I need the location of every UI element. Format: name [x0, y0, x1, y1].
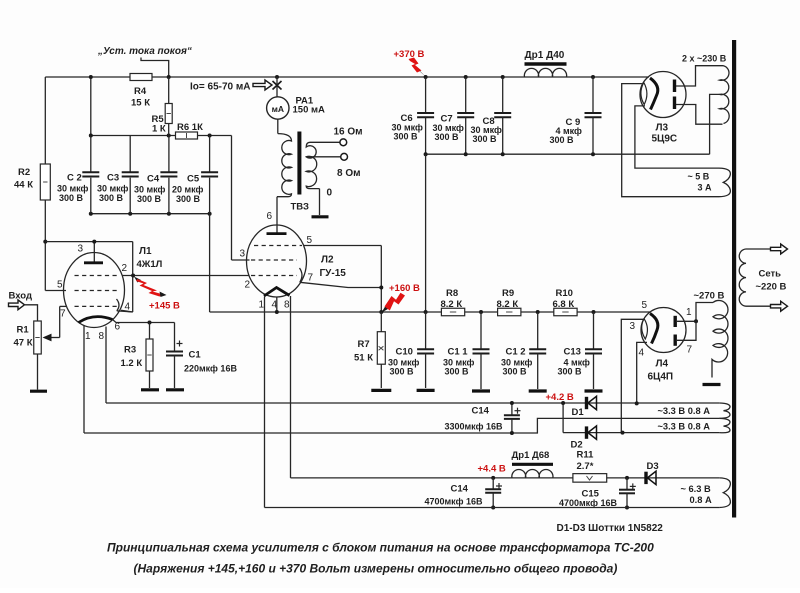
svg-text:+160 В: +160 В — [389, 283, 420, 294]
svg-text:300 В: 300 В — [435, 132, 460, 142]
label L1 pin2 — [122, 263, 128, 274]
tube L1 envelope — [64, 253, 125, 328]
wire C5 down to +160 rail — [209, 214, 211, 312]
ground C10 — [417, 389, 435, 392]
resistor R4 — [130, 74, 152, 81]
svg-text:„Уст. тока покоя“: „Уст. тока покоя“ — [97, 46, 192, 57]
svg-text:6: 6 — [267, 211, 273, 222]
svg-text:С14: С14 — [472, 406, 490, 417]
capacitor C1 — [166, 323, 183, 389]
label C9 — [550, 117, 583, 145]
capacitor C6 — [417, 77, 434, 154]
resistor R1 — [34, 321, 42, 354]
capacitor C8 — [494, 77, 511, 154]
svg-text:1.2 К: 1.2 К — [121, 358, 143, 369]
label L1 — [137, 246, 163, 270]
label L4 pin5 — [642, 300, 648, 311]
label R1 — [14, 325, 33, 349]
svg-text:С3: С3 — [107, 173, 119, 184]
ground C12 — [529, 389, 547, 392]
svg-text:2: 2 — [122, 263, 128, 274]
capacitor C9 — [585, 77, 602, 154]
svg-text:R10: R10 — [556, 288, 573, 299]
choke Dr1 D68 winding — [512, 470, 553, 478]
label 5V winding — [688, 172, 713, 193]
node L4 pin4 heater — [635, 401, 639, 405]
svg-text:1: 1 — [85, 331, 91, 342]
label R8 — [441, 288, 463, 310]
svg-text:ГУ-15: ГУ-15 — [320, 268, 347, 279]
svg-text:С1 1: С1 1 — [448, 347, 469, 358]
node C12 rail — [536, 310, 540, 314]
wire L1 pin2 to L2 pin2 — [122, 274, 250, 278]
capacitor C14 3300 — [504, 401, 521, 435]
L2 grid dash row pin3 — [251, 259, 297, 261]
tube L4 envelope — [641, 308, 686, 353]
label Vhod — [9, 291, 33, 302]
wire L3 top anode to winding — [676, 66, 724, 86]
svg-text:~3.3 В 0.8 А: ~3.3 В 0.8 А — [658, 422, 711, 432]
L1 grid dash row pin5 — [75, 290, 120, 292]
TV3 secondary winding — [306, 142, 340, 188]
label PA1 — [293, 96, 326, 116]
svg-text:~3.3 В 0.8 А: ~3.3 В 0.8 А — [658, 406, 711, 416]
node R4 tap on rail — [167, 75, 171, 79]
svg-text:R2: R2 — [18, 167, 30, 178]
svg-text:мА: мА — [272, 104, 284, 114]
bolt +145V — [134, 277, 167, 298]
label L2 pins 148 — [259, 300, 291, 311]
node junction L1 grid box — [43, 240, 47, 244]
label R4 — [131, 86, 150, 109]
PT core — [732, 40, 736, 518]
L2 pin1 stem — [264, 297, 266, 508]
label D3 — [647, 461, 659, 472]
wire HT filter bus — [424, 152, 710, 156]
capacitor C3 — [122, 136, 139, 214]
label L4 pin4 — [639, 348, 645, 359]
svg-text:Л1: Л1 — [139, 246, 152, 257]
label L1 pin7 — [60, 309, 66, 320]
L2 pin4 stem — [275, 298, 279, 315]
svg-text:300 В: 300 В — [59, 193, 84, 203]
svg-text:Вход: Вход — [9, 291, 33, 302]
wire R6 to L2 grid — [232, 136, 250, 261]
label R5 — [152, 114, 166, 135]
svg-text:R4: R4 — [134, 86, 147, 97]
svg-text:С1: С1 — [189, 350, 202, 361]
resistor R7 — [377, 312, 385, 388]
node C9 top — [591, 75, 595, 79]
label C8 — [471, 116, 503, 144]
svg-text:R3: R3 — [124, 345, 136, 356]
bolt +160V — [381, 293, 405, 313]
wire L4 pin3 — [621, 319, 644, 432]
L2 grid dash row pin5 — [254, 245, 302, 247]
L1 heater arc — [79, 317, 113, 323]
L1 pin3 stem and anode — [84, 240, 103, 263]
choke Dr1 D68 core — [512, 463, 553, 466]
label 3.3V no2 — [658, 422, 711, 432]
wire caps bottom bus — [89, 212, 212, 216]
label +145V — [149, 301, 180, 312]
ground C1 — [166, 388, 184, 391]
mains arrow top — [771, 244, 788, 254]
svg-text:8 Ом: 8 Ом — [337, 168, 361, 179]
wire L4 pin7 tie — [677, 321, 696, 340]
resistor R8 — [441, 308, 464, 316]
input arrow — [9, 300, 25, 310]
wire L4 pin1 to winding — [677, 303, 713, 324]
resistor R11 — [573, 474, 607, 483]
resistor R9 — [498, 308, 521, 316]
wire heater bottom line — [265, 507, 720, 509]
label R6 — [177, 122, 203, 133]
label Dr1 D40 — [525, 50, 565, 61]
tube L2 envelope — [247, 225, 307, 297]
L4 anode pin1 — [674, 316, 677, 327]
label C2 — [57, 173, 89, 204]
label 0 — [327, 188, 333, 199]
caption line1 — [107, 541, 654, 555]
wire +160 vertical — [379, 246, 383, 315]
svg-text:8: 8 — [284, 300, 290, 311]
svg-text:8.2 К: 8.2 К — [497, 299, 519, 310]
node C2 top — [89, 134, 93, 138]
wire rail to PA1 — [276, 77, 278, 97]
svg-text:(Наряжения +145,+160 и +370 В: (Наряжения +145,+160 и +370 Вольт измере… — [134, 562, 618, 576]
label diodes type — [557, 523, 664, 534]
label C10 — [388, 347, 420, 377]
svg-text:5Ц9С: 5Ц9С — [652, 134, 678, 145]
wire R4 wiper tap — [141, 58, 169, 78]
svg-text:5: 5 — [307, 235, 313, 246]
wire +4.4 line — [291, 476, 720, 480]
wire L1 anode box top — [45, 241, 132, 243]
capacitor C15 — [619, 478, 636, 510]
svg-text:300 В: 300 В — [503, 367, 528, 377]
svg-text:С 2: С 2 — [67, 173, 82, 184]
svg-text:4700мкф 16В: 4700мкф 16В — [559, 498, 617, 508]
svg-text:5: 5 — [57, 280, 63, 291]
svg-text:+370 В: +370 В — [394, 49, 425, 60]
label C5 — [172, 174, 204, 205]
label L3 — [652, 123, 678, 145]
PT mains winding — [739, 249, 770, 306]
TV3 primary winding — [277, 134, 292, 197]
svg-text:1: 1 — [686, 307, 692, 318]
label L1 pins 1 8 — [85, 331, 105, 342]
diode D3 — [646, 471, 656, 484]
label +160V — [389, 283, 420, 294]
svg-text:8: 8 — [99, 331, 105, 342]
L3 anode top — [673, 80, 676, 93]
label 2x230V — [682, 54, 727, 64]
svg-text:Принципиальная схема усилителя: Принципиальная схема усилителя с блоком … — [107, 541, 654, 555]
label +4.2V — [546, 392, 574, 403]
bolt +370V — [409, 58, 427, 78]
node C13 rail — [592, 310, 596, 314]
node C7 top — [464, 75, 468, 79]
svg-text:6Ц4П: 6Ц4П — [648, 372, 674, 383]
svg-text:7: 7 — [308, 273, 314, 284]
svg-text:Др1 Д40: Др1 Д40 — [525, 50, 565, 61]
L2 anode bar — [267, 232, 287, 235]
wire R1 wiper — [43, 306, 67, 341]
svg-text:7: 7 — [687, 345, 693, 356]
capacitor C2 — [82, 136, 99, 214]
svg-text:С10: С10 — [396, 347, 413, 358]
node C11 rail — [479, 310, 483, 314]
L1 pin1 stem — [83, 326, 85, 434]
svg-text:4: 4 — [272, 300, 278, 311]
wire L2 pin7 — [300, 282, 382, 287]
label D1 — [572, 407, 585, 418]
svg-text:4Ж1Л: 4Ж1Л — [137, 259, 163, 270]
svg-text:300 В: 300 В — [99, 193, 124, 203]
ground R3 — [141, 388, 159, 391]
svg-text:Io= 65-70 мА: Io= 65-70 мА — [190, 82, 250, 93]
TV3 core — [297, 132, 301, 195]
winding 3.3V no1 — [719, 403, 730, 418]
Io arrow — [253, 80, 272, 90]
svg-text:150 мА: 150 мА — [293, 105, 326, 116]
label L1 pin4 — [125, 302, 131, 313]
label C15 — [559, 489, 617, 509]
label R11 — [577, 450, 595, 473]
L3 filament — [641, 83, 647, 105]
label Io — [190, 82, 250, 93]
L1 pin8 stem — [105, 327, 107, 404]
svg-text:4: 4 — [125, 302, 131, 313]
wire L2 pin5 to +160 — [304, 245, 382, 247]
label C11 — [443, 347, 475, 377]
label R7 — [354, 339, 373, 364]
wire 8ohm tap — [306, 156, 341, 158]
svg-text:+145 В: +145 В — [149, 301, 180, 312]
label L1 pin6 — [115, 322, 121, 333]
svg-text:С14: С14 — [451, 484, 469, 495]
wire left vertical to L1 pin5 — [45, 77, 66, 291]
wire C2 branch from rail — [89, 75, 93, 136]
label 3.3V no1 — [658, 406, 711, 416]
resistor R6 — [176, 132, 198, 139]
svg-text:44 К: 44 К — [14, 180, 33, 191]
wire input to R1 — [25, 305, 38, 321]
svg-text:300 В: 300 В — [473, 134, 498, 144]
L2 pin7 arc — [300, 268, 302, 282]
L2 heater — [264, 288, 290, 297]
capacitor C10 — [417, 312, 434, 388]
label L1 pin3 — [78, 244, 84, 255]
label C14 4700 — [425, 484, 483, 507]
svg-text:ТВЗ: ТВЗ — [291, 202, 310, 213]
L4 anode pin7 — [674, 335, 677, 346]
label L4 pin7 — [687, 345, 693, 356]
L1 pin6 wire — [113, 320, 175, 325]
wire D1 D2 tie — [561, 401, 565, 433]
svg-text:Л2: Л2 — [321, 255, 334, 266]
label 16 Ohm — [334, 127, 363, 138]
svg-text:~220 В: ~220 В — [756, 282, 787, 293]
wire L4 pin4 — [637, 342, 647, 403]
svg-text:4700мкф 16В: 4700мкф 16В — [425, 497, 483, 507]
svg-text:3: 3 — [78, 244, 84, 255]
svg-text:R1: R1 — [17, 325, 30, 336]
wire C6 bus down to +160 rail — [425, 154, 427, 312]
PT HV center tap — [710, 94, 720, 154]
resistor R3 — [146, 323, 153, 389]
wire +160V rail — [210, 311, 650, 313]
resistor R10 — [554, 308, 577, 316]
L2 grid dash row pin2 — [251, 275, 297, 277]
label TV3 — [291, 202, 310, 213]
capacitor C4 — [160, 136, 177, 214]
svg-text:30 мкф: 30 мкф — [134, 185, 166, 195]
L1 pin4 arc — [117, 299, 133, 312]
label L2 pin6 — [267, 211, 273, 222]
wire heater top line — [106, 402, 719, 404]
svg-text:D1-D3 Шоттки 1N5822: D1-D3 Шоттки 1N5822 — [557, 523, 664, 534]
svg-text:30 мкф: 30 мкф — [57, 184, 89, 194]
svg-text:D1: D1 — [572, 407, 585, 418]
svg-text:+4.4 В: +4.4 В — [478, 464, 506, 475]
svg-text:Др1 Д68: Др1 Д68 — [512, 450, 550, 461]
wire L3 bottom anode to winding — [676, 105, 723, 125]
PT 270V winding — [712, 300, 728, 377]
label R9 — [497, 288, 519, 310]
label C1 — [184, 350, 237, 374]
svg-text:0.8 А: 0.8 А — [690, 495, 713, 505]
wire D2 line — [563, 431, 719, 435]
label L4 — [648, 359, 674, 383]
wire top +370V rail — [45, 76, 649, 78]
cut mark X — [273, 81, 282, 90]
wire TV3 to L2 pin6 — [276, 197, 278, 233]
svg-text:Л4: Л4 — [656, 359, 669, 370]
wire secondary 0 to ground — [319, 189, 321, 215]
svg-text:6.8 К: 6.8 К — [553, 299, 575, 310]
tube L3 envelope — [640, 72, 686, 118]
label 8 Ohm — [337, 168, 361, 179]
svg-text:300 В: 300 В — [558, 367, 583, 377]
svg-text:R8: R8 — [446, 288, 458, 299]
L3 anode bottom — [673, 97, 676, 110]
svg-text:2: 2 — [245, 280, 251, 291]
terminal 16 Ohm — [340, 139, 347, 146]
svg-text:8.2 К: 8.2 К — [441, 299, 463, 310]
label C7 — [433, 114, 465, 143]
svg-text:3: 3 — [240, 249, 246, 260]
svg-text:6: 6 — [115, 322, 121, 333]
caption line2 — [134, 562, 618, 576]
label L2 — [320, 255, 347, 280]
svg-text:0: 0 — [327, 188, 333, 199]
label L2 pin7 — [308, 273, 314, 284]
label C14 3300 — [445, 406, 503, 432]
svg-text:С1 2: С1 2 — [506, 347, 526, 358]
L4 filament — [642, 319, 648, 339]
svg-text:2 х ~230 В: 2 х ~230 В — [682, 54, 727, 64]
label C3 — [97, 173, 129, 204]
choke Dr1 D40 core — [525, 62, 567, 65]
svg-text:3 А: 3 А — [698, 183, 713, 193]
label R10 — [553, 288, 575, 310]
mains arrow bottom — [771, 301, 788, 311]
svg-text:300 В: 300 В — [176, 194, 201, 204]
label Set — [756, 269, 787, 293]
node R5 bottom — [167, 134, 171, 138]
label C6 — [392, 113, 424, 142]
resistor R2 — [40, 164, 50, 200]
svg-text:300 В: 300 В — [137, 194, 162, 204]
label L2 pin2 — [245, 280, 251, 291]
node C6 top — [424, 75, 428, 79]
label C4 — [134, 174, 166, 205]
capacitor C11 — [473, 312, 490, 389]
L1 grid dash row pin2 — [75, 275, 120, 277]
svg-text:30 мкф: 30 мкф — [97, 184, 129, 194]
label R2 — [14, 167, 33, 191]
ground R1 — [30, 390, 47, 393]
ground TV3 — [312, 215, 329, 218]
svg-text:300 В: 300 В — [394, 132, 419, 142]
choke Dr1 D40 winding — [524, 68, 566, 77]
winding 3.3V no2 — [719, 418, 730, 432]
label L1 pin5 — [57, 280, 63, 291]
resistor R5 — [165, 104, 172, 124]
ground C11 — [472, 389, 490, 392]
svg-text:С5: С5 — [187, 174, 200, 185]
svg-text:15 К: 15 К — [131, 98, 150, 109]
label L2 pin3 — [240, 249, 246, 260]
svg-text:220мкф 16В: 220мкф 16В — [184, 364, 237, 374]
svg-text:~ 5 В: ~ 5 В — [688, 172, 710, 182]
label Dr1 D68 — [512, 450, 550, 461]
node C8 top — [501, 75, 505, 79]
ground R7 — [371, 389, 391, 392]
L1 grid dash row pin7 — [75, 305, 120, 307]
label R3 — [121, 345, 143, 370]
terminal 8 Ohm — [341, 153, 348, 160]
svg-text:Л3: Л3 — [656, 123, 669, 134]
svg-text:С13: С13 — [564, 347, 581, 358]
svg-text:~ 6.3 В: ~ 6.3 В — [681, 484, 712, 494]
label +370V — [394, 49, 425, 60]
PT 5V winding cap — [719, 168, 730, 197]
svg-text:1 К: 1 К — [152, 124, 166, 135]
svg-text:5: 5 — [642, 300, 648, 311]
capacitor C12 — [529, 312, 546, 389]
winding 6.3V — [719, 478, 730, 508]
L3 cathode — [650, 78, 658, 110]
diode D1 — [587, 396, 597, 409]
wire PA1 to TV3 — [277, 119, 279, 133]
label L4 pin1 — [686, 307, 692, 318]
svg-text:Сеть: Сеть — [759, 269, 782, 280]
node PA1 branch — [275, 75, 279, 79]
capacitor C14 4700 — [485, 478, 502, 510]
svg-text:С4: С4 — [147, 174, 160, 185]
wire L3 filament lead A — [622, 84, 719, 197]
wire R1 bottom — [37, 354, 39, 390]
ground C13 — [585, 389, 603, 392]
svg-text:R9: R9 — [502, 288, 514, 299]
svg-text:7: 7 — [60, 309, 66, 320]
capacitor C7 — [457, 77, 474, 154]
wire bias bus y135 — [91, 135, 232, 137]
wire L3 filament lead B — [635, 106, 719, 168]
